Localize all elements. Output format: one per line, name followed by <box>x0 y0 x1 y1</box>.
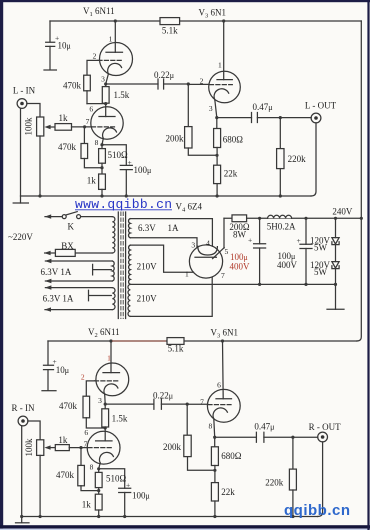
resistor 510ohm (R cathode) <box>98 469 100 473</box>
capacitor 0.47u (R output coupling) <box>215 436 257 438</box>
wire: right B+ rail (top half) <box>360 21 362 218</box>
node: V1 pin3 output <box>104 82 107 85</box>
svg-text:BX: BX <box>61 241 74 251</box>
V3b cathode <box>213 408 227 419</box>
resistor 22k (R V3 cathode lower) <box>211 483 218 501</box>
V2a cathode <box>104 384 118 395</box>
wire: V1a grid to 470k <box>87 60 98 75</box>
ground symbol (L input) <box>13 202 28 204</box>
svg-text:510Ω: 510Ω <box>108 150 129 160</box>
wire: V2a grid to 470k <box>86 381 94 396</box>
svg-text:3: 3 <box>209 104 213 113</box>
zener diode 120V 5W (lower) <box>335 245 337 262</box>
svg-text:0.22μ: 0.22μ <box>153 391 173 401</box>
ground terminal of 10u <box>44 69 56 71</box>
V1a grid (dashed) <box>98 59 123 61</box>
node: L output junction <box>279 116 282 119</box>
triode V2a envelope <box>96 363 129 396</box>
potentiometer 100k (R volume) <box>37 440 44 456</box>
node: V1 pin7 grid <box>83 125 86 128</box>
svg-text:1k: 1k <box>58 435 68 445</box>
capacitor 10u (R decoupling) <box>47 341 49 365</box>
V2b anode lead <box>104 427 106 441</box>
jack R-IN <box>18 416 28 426</box>
node: V2 pin8 <box>97 467 100 470</box>
jack L-IN <box>17 99 27 109</box>
svg-text:100μ: 100μ <box>230 252 248 262</box>
triode V1b envelope <box>91 107 123 139</box>
svg-text:5W: 5W <box>314 267 328 277</box>
V1b grid (dashed) <box>92 126 115 128</box>
svg-text:210V: 210V <box>137 294 158 304</box>
V3a cathode <box>214 89 229 100</box>
wire: R ground bus <box>22 516 318 518</box>
svg-text:1k: 1k <box>82 500 92 510</box>
svg-text:1k: 1k <box>87 176 97 186</box>
resistor 1.5k (R SRPP cathode) <box>104 404 106 409</box>
svg-text:R - OUT: R - OUT <box>309 422 341 432</box>
svg-text:8: 8 <box>209 422 213 431</box>
svg-text:8: 8 <box>95 138 99 147</box>
node: V3 grid network <box>187 82 190 85</box>
node: bus junctions R <box>20 515 23 518</box>
potentiometer 100k (L volume) <box>37 117 44 136</box>
triode V2b envelope <box>87 431 120 464</box>
node: V2 pin3 output <box>104 403 107 406</box>
ground wire: R-IN sleeve <box>21 426 23 523</box>
node: zener to 0V rail <box>334 283 337 286</box>
V4 cathode lead diagonal <box>213 248 225 259</box>
svg-text:7: 7 <box>84 439 88 448</box>
node: 240V right rail <box>360 217 363 220</box>
svg-text:~220V: ~220V <box>8 232 33 242</box>
svg-text:0.47μ: 0.47μ <box>254 422 274 432</box>
node: V3 pin8 cathode out <box>213 436 216 439</box>
switch K <box>62 215 66 219</box>
svg-text:R - IN: R - IN <box>12 403 35 413</box>
svg-text:2: 2 <box>81 372 85 381</box>
svg-text:6: 6 <box>217 380 221 389</box>
svg-text:100μ: 100μ <box>132 491 150 501</box>
svg-text:6: 6 <box>84 428 88 437</box>
rectifier V4 6Z4 envelope <box>189 245 222 278</box>
heater tap A <box>93 264 112 275</box>
ground wire: R-OUT sleeve <box>318 442 323 517</box>
transformer core <box>118 212 125 319</box>
node: 0V rail junctions <box>258 283 261 286</box>
node: SRPP mid junction (R) <box>104 426 107 429</box>
red scan artifact on R rail <box>112 340 166 342</box>
svg-text:8W: 8W <box>233 230 247 240</box>
svg-text:6.3V: 6.3V <box>138 223 156 233</box>
svg-text:1: 1 <box>185 269 189 278</box>
V4 heater arc <box>198 246 218 255</box>
border frame <box>0 0 370 2</box>
V1b anode bar <box>99 116 115 118</box>
svg-text:+: + <box>128 158 132 167</box>
svg-text:7: 7 <box>86 117 90 126</box>
node: 510/1k junction (R) <box>97 489 100 492</box>
triode V3b envelope <box>207 389 240 422</box>
secondary 6.3V winding B (left lower) <box>45 287 112 289</box>
svg-text:8: 8 <box>90 463 94 472</box>
node: 510/1k junction <box>100 166 103 169</box>
node: zener chain top <box>334 217 337 220</box>
node: V3 pin3 cathode out <box>215 116 218 119</box>
svg-text:3: 3 <box>98 396 102 405</box>
resistor 680ohm (R V3 cathode upper) <box>214 437 216 447</box>
wire: SRPP mid to 470k <box>87 103 106 105</box>
svg-text:6.3V 1A: 6.3V 1A <box>43 294 74 304</box>
capacitor 100u (R cathode bypass) <box>99 469 125 489</box>
V1b anode lead <box>105 104 107 117</box>
jack R-OUT <box>318 432 328 442</box>
wire: mains line lower <box>75 252 112 254</box>
node: rail junction V2 pin1 <box>109 339 112 342</box>
V3b anode <box>222 341 225 399</box>
capacitor 100u 400V (first) <box>259 218 261 244</box>
svg-text:1.5k: 1.5k <box>114 90 130 100</box>
svg-text:1: 1 <box>218 61 222 70</box>
node: rail junction V3 pin1 <box>222 19 225 22</box>
node: 680/22k junction <box>215 154 218 157</box>
svg-text:5.1k: 5.1k <box>162 26 178 36</box>
resistor 470k (V1a grid to SRPP node) <box>84 75 91 91</box>
svg-text:7: 7 <box>221 271 225 280</box>
svg-text:L - IN: L - IN <box>13 86 36 96</box>
svg-text:100k: 100k <box>24 438 34 457</box>
arrow mains upper <box>45 214 52 218</box>
V2a anode <box>110 341 112 373</box>
svg-text:100μ: 100μ <box>134 165 152 175</box>
svg-text:22k: 22k <box>221 487 235 497</box>
svg-text:+: + <box>248 236 252 245</box>
V2b cathode <box>99 452 113 463</box>
resistor 470k (R grid leak) <box>80 448 82 466</box>
svg-text:+: + <box>126 481 130 490</box>
V1b cathode <box>103 128 117 139</box>
svg-text:220k: 220k <box>288 154 307 164</box>
svg-text:0.47μ: 0.47μ <box>252 102 272 112</box>
svg-text:6.3V 1A: 6.3V 1A <box>41 267 72 277</box>
capacitor 10u (L decoupling) <box>49 21 51 42</box>
svg-text:1k: 1k <box>59 113 69 123</box>
svg-text:5.1k: 5.1k <box>168 344 184 354</box>
node: V1 pin8 <box>100 143 103 146</box>
svg-text:1: 1 <box>107 354 111 363</box>
node: SRPP mid junction <box>104 102 107 105</box>
wire: B+ line 240V <box>224 217 361 219</box>
transformer primary winding <box>112 217 115 253</box>
capacitor 0.22u (L coupling) <box>106 83 158 85</box>
secondary 6.3V winding (rectifier heater, right top) <box>128 219 130 238</box>
resistor 510ohm (L cathode) <box>101 145 103 149</box>
svg-text:200k: 200k <box>166 134 185 144</box>
node: filter cap 1 top <box>258 217 261 220</box>
heater tap B <box>89 290 112 301</box>
svg-text:240V: 240V <box>332 207 353 217</box>
node: bus junctions L <box>38 194 41 197</box>
svg-text:470k: 470k <box>59 401 78 411</box>
svg-text:1: 1 <box>109 35 113 44</box>
capacitor 0.47u (L output coupling) <box>217 117 252 119</box>
svg-text:1.5k: 1.5k <box>112 414 128 424</box>
capacitor 100u (L cathode bypass) <box>102 145 126 166</box>
wire: mains line upper <box>45 216 62 218</box>
wiper arrow of 100k <box>49 126 55 128</box>
resistor 5.1k (R plate load) <box>167 338 184 345</box>
resistor 200ohm 8W <box>232 215 247 222</box>
svg-text:510Ω: 510Ω <box>106 474 127 484</box>
resistor 470k (V2a grid to SRPP node) <box>83 396 90 418</box>
ground wire: L-OUT sleeve <box>311 123 316 196</box>
svg-text:1A: 1A <box>168 223 180 233</box>
choke 5H 0.2A <box>268 215 292 218</box>
resistor 1k (R grid stopper) <box>55 445 69 451</box>
svg-text:400V: 400V <box>277 260 298 270</box>
svg-text:400V: 400V <box>230 262 251 272</box>
fuse BX <box>55 249 75 256</box>
V3a grid (dashed) <box>210 84 233 86</box>
resistor 1k (R cathode lower) <box>95 494 102 510</box>
svg-text:100k: 100k <box>24 117 34 136</box>
svg-text:22k: 22k <box>224 169 238 179</box>
svg-text:5H0.2A: 5H0.2A <box>267 222 296 232</box>
secondary 210V winding upper <box>129 245 131 284</box>
V1a cathode <box>108 63 122 74</box>
svg-text:470k: 470k <box>56 470 75 480</box>
resistor 1k (L grid stopper) <box>55 124 72 131</box>
jack L-OUT <box>311 113 321 123</box>
svg-text:L - OUT: L - OUT <box>305 101 337 111</box>
wire: right B+ rail (lower half) <box>357 218 362 341</box>
svg-text:7: 7 <box>200 397 204 406</box>
resistor 22k (L V3 cathode lower) <box>214 165 221 183</box>
wire: B+ top rail <box>50 20 361 22</box>
node: V2 pin7 grid <box>79 446 82 449</box>
svg-text:680Ω: 680Ω <box>221 451 242 461</box>
zener diode 120V 5W (upper) <box>335 218 337 237</box>
resistor 470k (L grid leak) <box>83 127 85 144</box>
svg-text:qqibb.cn: qqibb.cn <box>284 502 350 519</box>
resistor 220k (R output load) <box>292 437 294 469</box>
svg-text:10μ: 10μ <box>58 41 71 51</box>
wire: HT centre tap / 0V rail <box>130 283 335 285</box>
node: R output junction <box>291 436 294 439</box>
svg-text:220k: 220k <box>265 478 284 488</box>
resistor 1.5k (SRPP cathode) <box>105 84 107 87</box>
node: 680/22k junction (R) <box>213 469 216 472</box>
svg-text:5: 5 <box>225 247 229 256</box>
resistor 1k (L cathode lower) <box>99 174 106 189</box>
wire: R-IN to pot <box>28 421 40 440</box>
secondary 210V winding lower <box>128 284 130 316</box>
ground symbol (PSU) <box>327 308 344 310</box>
svg-text:200k: 200k <box>163 442 182 452</box>
svg-text:3: 3 <box>101 75 105 84</box>
capacitor 100u 400V (second) <box>305 218 307 244</box>
V3a anode <box>223 21 225 80</box>
node: rail junction V3 pin6 <box>221 339 224 342</box>
resistor 680ohm (L V3 cathode upper) <box>216 118 218 129</box>
svg-text:K: K <box>68 222 75 232</box>
V2b anode bar <box>96 440 112 442</box>
capacitor 0.22u (R coupling) <box>105 403 154 405</box>
V1a anode <box>114 21 116 52</box>
svg-text:3: 3 <box>191 241 195 250</box>
wire: L ground bus <box>21 195 312 197</box>
V4 cathode bar <box>195 256 216 258</box>
wire: L-IN to pot <box>27 104 40 118</box>
triode V1a envelope <box>100 43 133 76</box>
secondary 6.3V winding A (left upper) <box>45 260 112 262</box>
svg-text:470k: 470k <box>58 142 77 152</box>
svg-text:680Ω: 680Ω <box>223 135 244 145</box>
triode V3a envelope <box>209 71 241 103</box>
svg-text:470k: 470k <box>63 81 82 91</box>
V3b grid (dashed) <box>208 404 231 406</box>
resistor 220k (L output load) <box>279 118 281 149</box>
svg-text:6: 6 <box>89 105 93 114</box>
svg-text:5W: 5W <box>314 243 328 253</box>
wire: V4 cathode to B+ <box>223 218 225 248</box>
ground symbol (R input) <box>16 522 30 524</box>
ground wire: L-IN sleeve <box>20 108 22 203</box>
svg-text:0.22μ: 0.22μ <box>154 70 174 80</box>
resistor 200k (R grid leak V3) <box>186 404 188 435</box>
ground terminal of 10u (R) <box>42 390 56 392</box>
node: filter cap 2 top <box>304 217 307 220</box>
resistor 5.1k (L plate load) <box>160 18 180 25</box>
svg-text:10μ: 10μ <box>56 365 69 375</box>
svg-text:4: 4 <box>206 238 210 247</box>
svg-text:2: 2 <box>200 77 204 86</box>
svg-text:2: 2 <box>93 52 97 61</box>
resistor 200k (L grid leak V3) <box>187 84 189 127</box>
wire: B+ rail (R) <box>48 340 357 342</box>
arrow mains lower <box>44 251 51 255</box>
V2b grid (dashed) <box>88 447 112 449</box>
svg-text:+: + <box>297 236 301 245</box>
node: V3b grid network <box>186 403 189 406</box>
wiper arrow of 100k (R) <box>49 447 55 449</box>
svg-text:210V: 210V <box>137 262 158 272</box>
V2a grid (dashed) <box>95 380 120 382</box>
node: rail junction V1 pin1 <box>114 19 117 22</box>
